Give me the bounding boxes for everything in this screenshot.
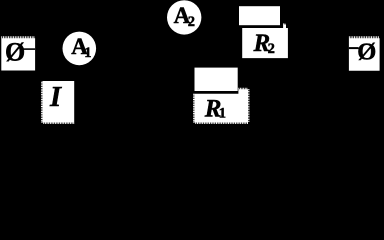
blank label rectangle above R2: [239, 6, 280, 25]
wire stub from left Ø terminal: [22, 48, 36, 50]
wire stub to right Ø terminal: [349, 47, 359, 49]
node Ø right phase terminal label: [357, 38, 376, 65]
ammeter A1: [63, 32, 97, 66]
svg-text:Ø: Ø: [357, 38, 376, 65]
terminal box left (phase input): [1, 36, 35, 70]
terminal box right (phase output): [349, 36, 380, 70]
svg-text:2: 2: [268, 41, 275, 57]
svg-text:Ø: Ø: [5, 37, 25, 66]
resistor R2: [242, 23, 288, 58]
current source I box: [41, 81, 74, 124]
svg-text:2: 2: [188, 14, 195, 30]
node Ø left phase terminal label: [5, 37, 25, 66]
resistor R1: [193, 88, 250, 124]
blank label rectangle above R1: [195, 68, 238, 93]
svg-text:1: 1: [84, 45, 91, 61]
svg-text:1: 1: [219, 106, 226, 122]
ammeter A2: [167, 0, 201, 34]
svg-text:I: I: [49, 82, 62, 113]
